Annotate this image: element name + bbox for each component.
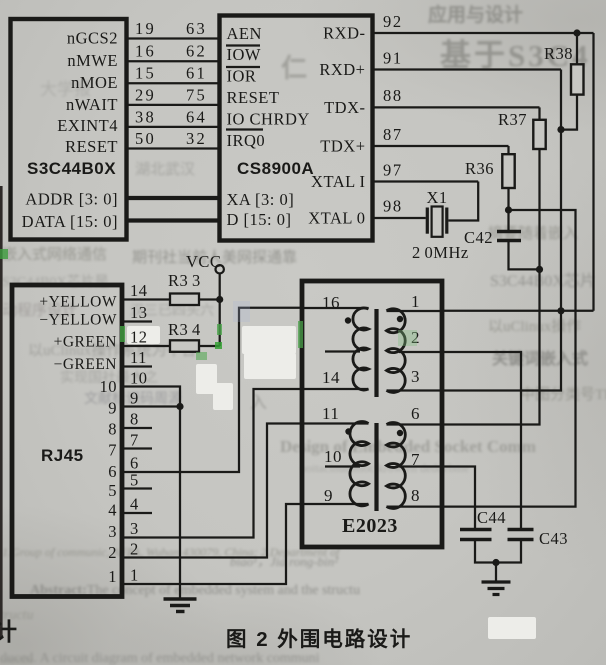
stub RJ45 pin 5 xyxy=(124,487,152,489)
svg-text:RJ45: RJ45 xyxy=(41,446,84,465)
node junction dot R36 / C42 / branch xyxy=(505,206,512,213)
svg-text:C43: C43 xyxy=(539,529,568,548)
phase dot bottom-right winding xyxy=(397,430,403,436)
resistor R33 xyxy=(170,294,199,306)
svg-text:7: 7 xyxy=(411,450,420,469)
svg-text:DATA [15: 0]: DATA [15: 0] xyxy=(22,212,118,231)
svg-text:RESET: RESET xyxy=(65,137,118,156)
svg-text:7: 7 xyxy=(130,431,139,450)
wire nMOE row (pins 15-61) xyxy=(128,82,219,84)
svg-text:计: 计 xyxy=(0,619,17,646)
wire R34 to VCC vertical xyxy=(199,345,220,347)
svg-text:61: 61 xyxy=(186,64,207,83)
ghost bleed-through text layer xyxy=(428,0,523,27)
wire XTALO pin 98 xyxy=(374,217,426,219)
wire RJ45 pin 2 up to transformer pin 11 xyxy=(124,424,302,558)
svg-text:CS8900A: CS8900A xyxy=(237,159,314,178)
crystal X1 right plate xyxy=(445,208,448,234)
resistor R38 xyxy=(571,64,584,94)
stub RJ45 pin 14 row to R33 xyxy=(124,298,170,300)
svg-text:图 2 外围电路设计: 图 2 外围电路设计 xyxy=(226,627,412,651)
svg-text:1: 1 xyxy=(108,567,117,586)
node junction dot R33 / VCC xyxy=(216,296,223,303)
wire branch from R36 node right then down to transformer pin 8 xyxy=(444,210,576,507)
wire TDX+ pin 87 xyxy=(374,145,509,147)
svg-text:9: 9 xyxy=(324,486,333,505)
transformer core bars top xyxy=(374,309,378,397)
svg-text:nGCS2: nGCS2 xyxy=(67,29,118,48)
svg-text:75: 75 xyxy=(186,85,207,104)
capacitor C42 top plate xyxy=(497,230,521,233)
wire RXD- pin 92 xyxy=(374,32,594,34)
svg-text:IOW: IOW xyxy=(227,45,261,64)
node junction dot RXD+ vertical / pin-1 wire xyxy=(557,307,564,314)
phase dot top-right winding xyxy=(397,316,403,322)
svg-text:11: 11 xyxy=(130,348,147,367)
svg-text:R3 4: R3 4 xyxy=(168,320,201,339)
wire TDX- pin 88 xyxy=(374,106,540,108)
wire transformer pin 1 to RXD- xyxy=(444,310,594,312)
svg-text:nWAIT: nWAIT xyxy=(66,95,118,114)
power VCC open terminal circle xyxy=(216,265,224,273)
svg-text:RESET: RESET xyxy=(227,88,280,107)
svg-text:R38: R38 xyxy=(544,44,573,63)
svg-text:16: 16 xyxy=(322,293,340,312)
wire pin3 lead xyxy=(387,389,445,391)
wire R36 bottom lead to node xyxy=(507,188,509,231)
node junction dot C44/C43 ground node xyxy=(492,559,499,566)
svg-text:63: 63 xyxy=(186,19,207,38)
wire VCC vertical to R34 xyxy=(219,274,221,347)
capacitor C44 bottom plate xyxy=(460,538,492,542)
svg-text:IOR: IOR xyxy=(227,67,257,86)
svg-text:X1: X1 xyxy=(427,188,448,207)
svg-text:88: 88 xyxy=(383,86,403,105)
ground symbol below C44/C43 xyxy=(495,563,497,582)
svg-text:62: 62 xyxy=(186,42,207,61)
svg-text:64: 64 xyxy=(186,107,207,126)
crystal X1 body rect xyxy=(432,207,443,237)
resistor R37 xyxy=(533,120,545,149)
svg-text:5: 5 xyxy=(130,471,139,490)
svg-text:RXD+: RXD+ xyxy=(319,60,365,79)
svg-text:R3 3: R3 3 xyxy=(168,271,201,290)
wire nMWE row (pins 16-62) xyxy=(128,60,219,62)
svg-text:6: 6 xyxy=(108,462,117,481)
colored scan smudges xyxy=(217,324,222,335)
svg-text:12: 12 xyxy=(130,328,148,347)
IC U2 CS8900A box xyxy=(220,16,373,241)
svg-text:1: 1 xyxy=(130,566,139,585)
wire RESET row (pins 50-32) xyxy=(128,147,219,149)
svg-text:−YELLOW: −YELLOW xyxy=(39,312,117,329)
winding bottom-right (pins 6/7/8) xyxy=(387,423,406,509)
node junction dot R37 net / C42 bottom xyxy=(536,266,543,273)
wire TDX+ drop into R36 xyxy=(507,146,509,154)
wire pin7 center tap lead xyxy=(399,465,444,467)
svg-text:50: 50 xyxy=(135,129,156,148)
svg-text:XA [3: 0]: XA [3: 0] xyxy=(227,190,295,209)
wire R37 bottom vertical down to transformer pin 6 xyxy=(444,149,540,425)
stub RJ45 pin 12 row to R34 xyxy=(124,345,170,347)
svg-text:AEN: AEN xyxy=(227,24,262,43)
svg-text:IRQ0: IRQ0 xyxy=(227,131,266,150)
svg-text:2 0MHz: 2 0MHz xyxy=(412,243,469,262)
svg-text:87: 87 xyxy=(383,125,403,144)
svg-text:R36: R36 xyxy=(465,159,494,178)
svg-text:14: 14 xyxy=(322,368,340,387)
svg-text:10: 10 xyxy=(324,447,342,466)
capacitor C43 bottom plate xyxy=(508,538,534,542)
svg-text:32: 32 xyxy=(186,129,207,148)
svg-text:2: 2 xyxy=(108,543,117,562)
svg-text:8: 8 xyxy=(108,420,117,439)
wire R33 to VCC vertical xyxy=(199,298,220,300)
svg-text:13: 13 xyxy=(130,303,148,322)
svg-text:16: 16 xyxy=(135,42,156,61)
svg-text:7: 7 xyxy=(108,441,117,460)
overline for IRQ0 xyxy=(226,128,263,130)
svg-text:38: 38 xyxy=(135,107,156,126)
svg-text:6: 6 xyxy=(411,404,420,423)
resistor R36 xyxy=(502,154,514,188)
wire pin14 lead xyxy=(302,388,369,390)
wire C42 bottom lead hook to R37 net xyxy=(509,241,540,270)
white-out patches xyxy=(242,326,296,354)
svg-text:XTAL 0: XTAL 0 xyxy=(308,209,365,228)
svg-text:nMWE: nMWE xyxy=(67,51,118,70)
svg-text:EXINT4: EXINT4 xyxy=(57,116,118,135)
svg-text:11: 11 xyxy=(322,404,339,423)
winding secondary top-right (pins 1/2/3) xyxy=(387,309,406,393)
wire nWAIT row (pins 29-75) xyxy=(128,104,219,106)
capacitor C42 bottom plate xyxy=(497,239,521,242)
transformer T1 E2023 box xyxy=(302,281,442,547)
svg-text:4: 4 xyxy=(130,495,139,514)
svg-text:XTAL I: XTAL I xyxy=(311,172,365,191)
left page-edge scan line xyxy=(0,186,3,638)
node junction dot pin9 / ground rail xyxy=(176,403,183,410)
wire RJ45 pin 10 to ground rail xyxy=(124,387,180,599)
svg-text:14: 14 xyxy=(130,281,148,300)
stub RJ45 pin 11 xyxy=(124,365,152,367)
node junction dot R38 / RXD+ xyxy=(557,126,564,133)
svg-text:29: 29 xyxy=(135,85,156,104)
resistor R34 xyxy=(170,340,199,352)
bus ADDR[3:0] to XA[3:0] xyxy=(128,196,219,200)
svg-text:−GREEN: −GREEN xyxy=(54,356,117,373)
wire RJ45 pin 6 up to transformer pin 16 xyxy=(124,308,302,472)
wire pin1 lead xyxy=(387,310,445,312)
svg-text:+GREEN: +GREEN xyxy=(54,334,117,351)
svg-text:3: 3 xyxy=(130,519,139,538)
wire pin2 center tap lead xyxy=(399,351,444,353)
svg-text:2: 2 xyxy=(130,540,139,559)
wire C44 bottom lead to ground node xyxy=(475,540,496,563)
stub RJ45 pin 13 xyxy=(124,320,152,322)
ground symbol below RJ45 rail xyxy=(164,597,197,600)
svg-text:3: 3 xyxy=(411,367,420,386)
svg-text:92: 92 xyxy=(383,12,403,31)
svg-text:97: 97 xyxy=(383,161,403,180)
wire R38 top lead xyxy=(576,33,578,64)
wire C43 bottom lead to ground node xyxy=(496,540,521,563)
svg-text:1: 1 xyxy=(411,292,420,311)
svg-text:TDX-: TDX- xyxy=(324,98,365,117)
svg-text:10: 10 xyxy=(100,377,118,396)
stub RJ45 pin 8 xyxy=(124,427,152,429)
svg-text:9: 9 xyxy=(108,399,117,418)
svg-text:TDX+: TDX+ xyxy=(320,137,365,156)
svg-text:5: 5 xyxy=(108,481,117,500)
wire transformer pin 7 down to C44 xyxy=(444,467,475,530)
capacitor C43 top plate xyxy=(508,528,534,532)
stub RJ45 pin 4 xyxy=(124,512,152,514)
wire pin15 stub (unlabeled center tap) xyxy=(325,350,360,352)
phase dot bottom-left winding xyxy=(345,428,351,434)
svg-text:ADDR [3: 0]: ADDR [3: 0] xyxy=(25,190,118,209)
capacitor C44 top plate xyxy=(460,528,492,532)
node junction dot RXD- / R38 xyxy=(573,29,580,36)
transformer core bars bottom xyxy=(374,423,378,511)
svg-text:C44: C44 xyxy=(477,508,506,527)
wire EXINT4 row (pins 38-64) xyxy=(128,126,219,128)
wire RJ45 pin 1 up to transformer pin 9 xyxy=(124,504,302,584)
svg-text:15: 15 xyxy=(135,64,156,83)
svg-text:9: 9 xyxy=(130,389,139,408)
wire nGCS2 row (pins 19-63) xyxy=(128,37,219,39)
stub RJ45 pin 7 xyxy=(124,447,152,449)
wire pin16 lead jog xyxy=(302,307,369,309)
svg-text:nMOE: nMOE xyxy=(71,73,118,92)
winding bottom-left (pins 11/10/9) xyxy=(350,422,369,506)
svg-text:3: 3 xyxy=(108,522,117,541)
connector J1 RJ45 box xyxy=(12,285,122,597)
phase dot top-left winding xyxy=(345,317,351,323)
svg-text:R37: R37 xyxy=(498,110,527,129)
wire XTALI pin 97 xyxy=(374,180,478,182)
wire RXD- vertical drop at right edge xyxy=(592,33,594,311)
wire TDX- drop into R37 xyxy=(538,107,540,119)
wire RJ45 pin 3 up to transformer pin 14 xyxy=(124,389,302,538)
crystal X1 left plate xyxy=(426,208,429,234)
svg-text:RXD-: RXD- xyxy=(323,24,365,43)
wire RXD+ vertical (561) down to transformer pin 3 xyxy=(444,70,561,391)
IC U1 S3C44B0X box xyxy=(11,19,127,240)
wire RXD+ pin 91 xyxy=(374,68,561,70)
winding primary top-left (pins 16/14) xyxy=(353,308,369,390)
svg-text:19: 19 xyxy=(135,19,156,38)
bus DATA[15:0] to D[15:0] xyxy=(128,218,219,222)
svg-text:VCC: VCC xyxy=(186,252,221,271)
svg-text:4: 4 xyxy=(108,501,117,520)
svg-text:8: 8 xyxy=(130,410,139,429)
svg-text:10: 10 xyxy=(130,369,148,388)
svg-text:E2023: E2023 xyxy=(342,515,398,537)
wire RJ45 pin 9 to ground rail xyxy=(124,405,180,407)
svg-text:+YELLOW: +YELLOW xyxy=(39,294,117,311)
svg-text:D [15: 0]: D [15: 0] xyxy=(227,210,292,229)
overline for IOR xyxy=(226,66,260,68)
wire R38 bottom lead hook to RXD+ xyxy=(561,95,577,130)
wire XTALI hook down to crystal right plate xyxy=(448,182,478,221)
overline for IOW xyxy=(226,44,260,46)
svg-text:S3C44B0X: S3C44B0X xyxy=(27,159,116,178)
svg-text:IO CHRDY: IO CHRDY xyxy=(227,110,310,129)
svg-text:98: 98 xyxy=(383,197,403,216)
svg-text:91: 91 xyxy=(383,49,403,68)
wire pin11 lead xyxy=(302,422,369,424)
wire transformer pin 2 down to C43 xyxy=(444,352,521,530)
svg-text:8: 8 xyxy=(411,486,420,505)
wire pin9 lead xyxy=(302,503,369,505)
wire pin6 lead xyxy=(387,423,445,425)
wire pin10 center tap stub xyxy=(325,465,360,467)
wire pin8 lead xyxy=(387,505,445,507)
